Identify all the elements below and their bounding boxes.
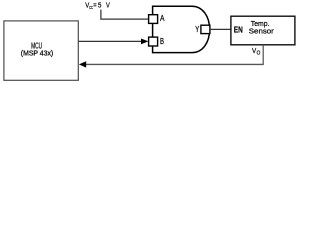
AND gate U2 body xyxy=(153,6,210,52)
wire VCC stub down and over to gate pin A xyxy=(100,10,148,20)
temp sensor box U3 xyxy=(231,16,295,45)
wire gate output Y to sensor EN xyxy=(210,28,231,30)
svg-text:EN: EN xyxy=(234,25,243,35)
svg-text:V: V xyxy=(106,1,110,10)
svg-text:Sensor: Sensor xyxy=(249,26,275,35)
gate pin A square xyxy=(149,15,158,24)
svg-text:5: 5 xyxy=(98,1,101,10)
wire VO drop from sensor bottom xyxy=(262,45,264,65)
gate pin B square xyxy=(149,37,158,46)
svg-text:B: B xyxy=(160,36,164,46)
MCU box U1 (MSP43x) xyxy=(4,21,78,80)
svg-text:A: A xyxy=(160,13,165,23)
wire VO back to MCU xyxy=(86,63,264,65)
gate pin Y square xyxy=(201,25,210,33)
svg-text:O: O xyxy=(257,50,261,56)
arrowhead into MCU xyxy=(79,61,86,67)
svg-text:Y: Y xyxy=(195,25,199,34)
arrowhead into gate pin B xyxy=(141,39,148,45)
svg-text:(MSP 43x): (MSP 43x) xyxy=(21,48,53,57)
wire MCU P1.0 to gate input B xyxy=(79,40,142,42)
svg-text:=: = xyxy=(93,1,96,10)
